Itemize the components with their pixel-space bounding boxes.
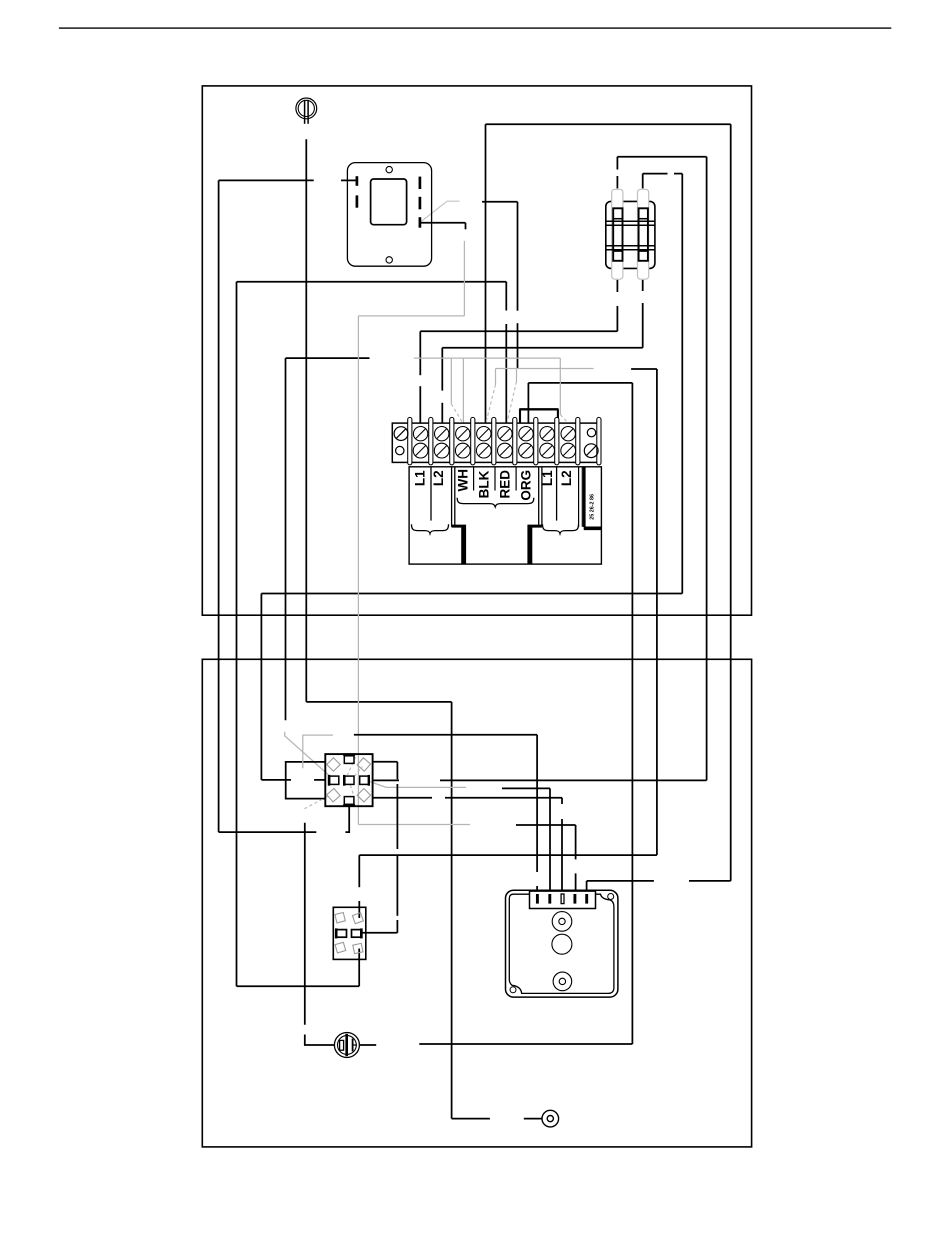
wire black y369 to corner: [631, 368, 657, 370]
TB1 middle cell dividers: [474, 467, 516, 491]
fuse F1 body: [612, 189, 623, 279]
wire fuse F1 top horizontal y157: [617, 156, 706, 158]
jumper bar col6-col7: [519, 409, 558, 439]
terminal block TB1 strip: [392, 423, 599, 462]
K1 interior gray dashed links: [348, 757, 363, 796]
wire relay right C bottom stub: [373, 797, 398, 799]
wire x707 vertical to relay: [706, 157, 708, 781]
wire bottom screw to fuse-col6 net horizontal: [419, 1043, 632, 1045]
TB1 middle-left thick foot: [452, 526, 465, 564]
K1 corner diamond BL: [327, 789, 340, 802]
gray leader stub to relay coil: [285, 732, 330, 776]
wire col1 drop segment b: [419, 386, 421, 423]
wire fuse F1 top lead segment a: [616, 157, 618, 170]
TB1 middle-left double wall: [452, 467, 455, 527]
fuse block FB1 outline: [606, 201, 655, 268]
gray leader vertical to col3: [462, 358, 464, 423]
wire pin1 drop segment a: [536, 735, 538, 872]
wire relay mid-left stub segment a: [261, 779, 291, 781]
gray bracket near relay: [303, 735, 333, 768]
S2 diamond TL: [335, 912, 345, 922]
wire inner loop left leg to col4: [485, 124, 487, 423]
wire y855 horizontal to socket S2 top: [359, 854, 657, 856]
wire socket S2 top pin segment b: [358, 901, 360, 918]
wire col2 drop segment a: [441, 348, 443, 391]
J1 pin 1: [536, 894, 539, 904]
wire col5 net bottom horizontal: [237, 985, 360, 987]
wire fuse F1 top lead segment b: [616, 176, 618, 188]
wire relay right C vertical segment a: [396, 762, 398, 780]
cover plate P1: [347, 163, 431, 267]
svg-text:L2: L2: [559, 470, 574, 486]
fuse F2 body: [638, 189, 649, 279]
page header rule: [59, 27, 891, 29]
wire plate-left horizontal segment a: [219, 179, 314, 181]
bottom screw GS2: [334, 1033, 359, 1058]
wire fuse F2 top lead: [642, 174, 644, 189]
TB1 right group brace: [543, 524, 579, 533]
J1 pin 4: [573, 894, 576, 904]
K1 pin square mid-left: [329, 775, 339, 786]
wire col6 net horizontal y383: [528, 382, 632, 384]
TB1 part-number cell: [584, 467, 602, 529]
wire pin1 drop segment b: [536, 886, 538, 894]
U1 mounting hole BL: [510, 987, 516, 993]
TB1 left group divider: [430, 467, 432, 521]
wire plate-right horizontal y223: [421, 222, 466, 224]
wire fuse F2 top horizontal segment b: [674, 173, 682, 175]
svg-text:25 26-2 86: 25 26-2 86: [590, 494, 596, 520]
wire pin1 horizontal: [354, 734, 537, 736]
wire x285 vertical: [285, 358, 287, 720]
wire socket S2 bottom pin: [358, 949, 360, 987]
TB1 terminal screws cols1-8: [413, 427, 575, 459]
wire relay mid-right run segment b: [373, 779, 399, 781]
wire y358 horizontal black: [286, 357, 370, 359]
U1 washer bottom: [553, 972, 572, 991]
wire plate-left horizontal segment b: [341, 179, 357, 181]
wire x657 vertical: [656, 369, 658, 855]
U1 center circle: [552, 934, 572, 954]
wire pin5 drop: [586, 881, 588, 894]
U1 connector J1: [530, 891, 596, 908]
wire pin3 drop segment b: [561, 819, 563, 894]
TB1 label box: [409, 467, 601, 564]
gray dashed diagonal to col4 screw: [486, 385, 496, 423]
gray wire x358 long vertical: [357, 316, 359, 825]
S2 pin square right: [352, 928, 362, 938]
wire fuse F1 bottom lead segment a: [616, 280, 618, 292]
wire GS1 right leg down: [451, 702, 453, 1119]
wire col1 drop segment a: [419, 331, 421, 375]
J1 pin 2: [548, 894, 551, 904]
wire col6 drop to terminal: [527, 383, 529, 425]
wire y593 horizontal: [261, 593, 682, 595]
ground screw GS1 (top): [296, 98, 317, 124]
wire GS1 down: [305, 139, 307, 702]
gray wire y824 horizontal: [358, 824, 470, 826]
wire pin3 horizontal segment a: [397, 797, 432, 799]
plate left contact dashes: [356, 176, 359, 208]
wire y348 horizontal to col2: [442, 347, 642, 349]
plate right contact dashes: [419, 177, 422, 228]
wire to ring terminal segment b: [524, 1118, 542, 1120]
wire plate-right short drop: [465, 223, 467, 230]
svg-text:ORG: ORG: [519, 470, 534, 501]
wire socket S2 right pin: [363, 932, 398, 934]
wire pin5 horizontal segment a: [689, 880, 731, 882]
gray leader drop x451: [450, 358, 452, 404]
wire to bottom screw left segment b: [305, 1035, 335, 1046]
wire col6 net vertical: [631, 383, 633, 1044]
TB1 end screw left: [394, 427, 408, 455]
gray dashed diagonal to col3 screw: [451, 404, 462, 423]
U1 mounting hole TR: [608, 894, 614, 900]
wire pin4 drop segment a: [575, 825, 577, 859]
S2 diamond TR: [352, 913, 363, 924]
wire inner loop right leg: [730, 124, 732, 881]
K1 pin square bottom: [343, 797, 355, 806]
svg-text:WH: WH: [455, 469, 470, 492]
wire relay mid-left stub segment b: [314, 779, 325, 781]
wire col5 net left vertical: [236, 282, 238, 987]
K1 pin square mid-right: [360, 775, 369, 786]
wire pin3 drop segment a: [561, 798, 563, 804]
svg-text:L1: L1: [540, 470, 555, 486]
wire pin5 horizontal segment b: [587, 880, 654, 882]
gray leader relay BR diagonal: [370, 782, 467, 788]
wire x397 down to socket segment a: [396, 798, 398, 849]
wire pin2 drop: [549, 788, 551, 894]
wire to bottom screw left segment a: [304, 823, 306, 1025]
TB1 middle group brace: [457, 498, 534, 507]
wire GS1 horizontal run: [306, 701, 451, 703]
wire x397 down to socket segment c: [396, 920, 398, 933]
U1 inner outline: [509, 894, 614, 993]
gray dashed diagonal to col5 screw: [508, 382, 517, 421]
gray leader drop x516: [516, 369, 518, 382]
wire fuse F1 bottom lead segment b: [616, 306, 618, 331]
S2 diamond BR: [353, 943, 363, 953]
gray wire x464 vertical: [463, 241, 465, 316]
S2 pin square left: [336, 928, 346, 938]
wire pin4 horizontal black: [516, 824, 576, 826]
wire x682 vertical: [681, 174, 683, 594]
wire x261 vertical to relay mid-left: [260, 594, 262, 780]
TB1 right group double wall: [579, 467, 583, 527]
wire relay mid-right run segment a: [440, 779, 707, 781]
wire fuse F2 bottom lead segment a: [642, 280, 644, 291]
wire socket S2 top pin segment a: [358, 855, 360, 887]
wire pin3 horizontal segment b: [445, 797, 562, 799]
J1 pin 3: [561, 894, 564, 904]
wire col2 drop segment b: [441, 403, 443, 423]
gray dashed leader relay BL: [305, 797, 328, 809]
TB1 middle-right thick foot: [529, 526, 542, 564]
wire bottom screw right stub: [360, 1044, 376, 1046]
S2 diamond BL: [335, 942, 346, 953]
gray wire y316 horizontal: [358, 315, 464, 317]
enclosure box bottom section: [202, 659, 751, 1147]
wire bottom run y832 segment a: [219, 831, 317, 833]
K1 corner diamond BR: [357, 788, 370, 801]
control box U1 outer: [506, 890, 618, 997]
wire pin2 horizontal black: [502, 787, 550, 789]
wire y331 horizontal to col1: [420, 330, 617, 332]
wire fuse F2 bottom lead segment b: [642, 303, 644, 348]
socket S2 body: [333, 907, 366, 959]
wire relay left C: [286, 762, 326, 799]
wire plate-left vertical drop: [218, 180, 220, 832]
wire x397 down to socket segment b: [396, 855, 398, 916]
TB1 end screw right: [584, 428, 598, 457]
K1 corner diamond TR: [357, 758, 370, 771]
svg-text:BLK: BLK: [476, 470, 491, 498]
TB1 middle-right double wall: [539, 467, 542, 527]
wire x517 drop segment a: [517, 202, 519, 311]
TB1 left group brace: [412, 524, 449, 533]
gray pointer from plate: [421, 201, 460, 222]
wire inner loop top y124: [486, 123, 731, 125]
wire bottom run y832 segment b (relay pin hook): [345, 806, 349, 833]
wire relay right C vertical segment b: [396, 784, 398, 798]
TB1 divider tabs: [408, 417, 601, 465]
wire col5 drop segment b: [505, 324, 507, 423]
gray leader drop x560: [559, 358, 561, 414]
wire relay right C top stub: [373, 761, 398, 763]
TB1 right group divider: [556, 467, 558, 521]
wire gray link y368: [496, 368, 594, 370]
gray dashed diagonal to col8 screw: [560, 415, 569, 425]
svg-text:RED: RED: [498, 470, 513, 499]
wire col5 drop segment a: [505, 282, 507, 311]
relay socket K1 body: [325, 754, 372, 806]
svg-text:L1: L1: [412, 470, 427, 486]
J1 pin 5: [585, 894, 588, 904]
K1 pin square top: [343, 755, 355, 764]
enclosure box top section: [202, 86, 751, 615]
U1 washer top: [552, 912, 572, 932]
wire pin4 drop segment b: [575, 873, 577, 894]
wire to ring terminal segment a: [452, 1118, 490, 1120]
svg-text:L2: L2: [431, 470, 446, 486]
ring terminal E1: [542, 1110, 559, 1127]
K1 corner diamond TL: [327, 758, 340, 771]
K1 pin square mid-center: [344, 775, 354, 786]
gray leader bus y358: [414, 357, 561, 359]
fuse F1 clip: [613, 208, 622, 260]
fuse F2 clip: [639, 208, 648, 260]
wire col5 net horizontal y282: [237, 281, 507, 283]
gray leader drop x495: [495, 369, 497, 385]
wire col4T horizontal y202: [482, 201, 518, 203]
wire x517 drop segment b: [517, 323, 519, 368]
fuse block bus bars: [606, 221, 655, 249]
wire fuse F2 top horizontal segment a: [643, 173, 668, 175]
